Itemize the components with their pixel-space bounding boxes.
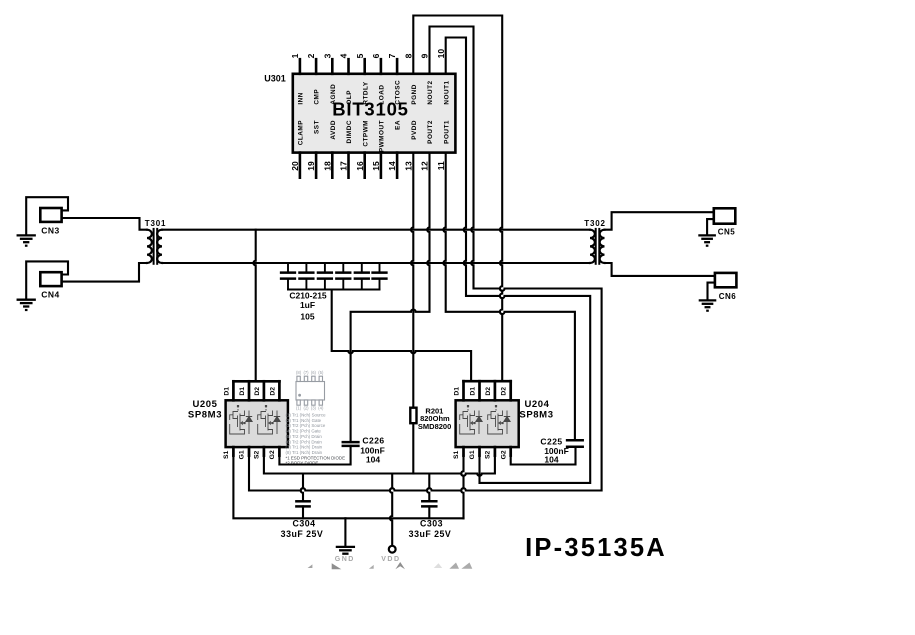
svg-text:PWMOUT: PWMOUT xyxy=(379,120,386,152)
transformer T301 xyxy=(147,229,162,264)
transformer T302 xyxy=(590,229,605,264)
wire pin 9 NOUT2 loop to U205 G1 xyxy=(249,27,602,491)
svg-text:D2: D2 xyxy=(501,387,508,396)
U204 source/gate pin stubs xyxy=(464,447,511,456)
svg-text:33uF 25V: 33uF 25V xyxy=(281,529,324,539)
svg-text:9: 9 xyxy=(420,53,430,58)
ground at CN6 xyxy=(700,300,715,311)
capacitor C226 xyxy=(343,442,359,446)
pin 3 (AGND) of U301 xyxy=(322,53,337,104)
label 33uF 25V (C304) xyxy=(281,529,324,539)
pin G1 bottom of U204 xyxy=(469,450,476,459)
label U204 xyxy=(524,399,549,410)
svg-text:10: 10 xyxy=(436,49,446,59)
svg-text:6: 6 xyxy=(371,53,381,58)
connector CN4 xyxy=(40,272,61,286)
svg-text:S1: S1 xyxy=(223,450,230,459)
svg-text:1: 1 xyxy=(290,53,300,58)
label C303 xyxy=(420,519,443,529)
svg-text:NOUT2: NOUT2 xyxy=(427,80,434,104)
wire U204 S1 down to GND rail xyxy=(461,456,463,519)
svg-text:D2: D2 xyxy=(485,387,492,396)
wire C210 rail to U204 D1 xyxy=(332,290,471,382)
svg-text:SP8M3: SP8M3 xyxy=(519,410,553,421)
IC U301 body xyxy=(293,74,456,153)
svg-text:U205: U205 xyxy=(192,399,217,410)
label R201 xyxy=(425,406,443,415)
label 820Ohm xyxy=(420,414,450,423)
svg-text:*1 ESD PROTECTION DIODE: *1 ESD PROTECTION DIODE xyxy=(286,455,346,460)
wire CN4 ground hook xyxy=(26,261,68,298)
svg-text:3: 3 xyxy=(322,53,332,58)
ground at CN4 xyxy=(18,300,35,311)
label CN4 xyxy=(41,290,60,300)
svg-text:(4) Tr2 (Pch) Gate: (4) Tr2 (Pch) Gate xyxy=(286,429,322,434)
pin G2 bottom of U204 xyxy=(500,450,507,459)
wire pin 13 PVDD to R201 xyxy=(411,153,413,408)
label 104 (C226) xyxy=(366,455,380,465)
svg-text:PVDD: PVDD xyxy=(411,120,418,140)
wire R201 to VDD rail xyxy=(412,423,414,473)
svg-text:(1): (1) xyxy=(296,406,302,411)
U204 drain pin stubs xyxy=(464,381,511,400)
svg-text:INN: INN xyxy=(298,92,305,105)
label CN5 xyxy=(718,228,736,237)
pin G1 bottom of U205 xyxy=(239,450,246,459)
svg-text:104: 104 xyxy=(544,455,558,465)
svg-text:8: 8 xyxy=(403,53,413,58)
svg-text:17: 17 xyxy=(339,161,349,171)
label 1uF xyxy=(300,300,315,310)
svg-text:SST: SST xyxy=(314,120,321,134)
svg-text:(4): (4) xyxy=(318,406,324,411)
U205 internal transistor Tr2 xyxy=(258,405,281,434)
wire T302 to CN6 xyxy=(605,263,715,276)
svg-text:D1: D1 xyxy=(453,387,460,396)
pin D2 top of U205 xyxy=(254,387,261,396)
label GND xyxy=(335,556,355,563)
pin D1 top of U204 xyxy=(453,387,460,396)
ground at CN5 xyxy=(699,235,714,246)
label U205 xyxy=(192,399,217,410)
svg-text:(6): (6) xyxy=(311,370,317,375)
wire U205 G2 to C226 xyxy=(279,446,350,465)
label CN3 xyxy=(41,226,60,236)
U204 internal transistor Tr2 xyxy=(488,405,511,434)
svg-text:PGND: PGND xyxy=(411,84,418,104)
svg-text:RTDLY: RTDLY xyxy=(362,81,369,104)
pin 15 (PWMOUT) of U301 xyxy=(371,120,386,178)
svg-text:VDD: VDD xyxy=(381,556,400,563)
label SP8M3 (U205) xyxy=(188,410,222,421)
label 104 (C225) xyxy=(544,455,558,465)
label CN6 xyxy=(719,292,737,301)
pin S1 bottom of U205 xyxy=(223,450,230,459)
svg-text:15: 15 xyxy=(371,161,381,171)
wire GND stub xyxy=(344,518,346,546)
svg-text:OLP: OLP xyxy=(346,90,353,105)
wire CN3 ground hook xyxy=(26,197,68,233)
pin 20 (CLAMP) of U301 xyxy=(290,120,305,178)
svg-text:(2): (2) xyxy=(303,406,309,411)
svg-text:(3) Tr2 (Pch) Source: (3) Tr2 (Pch) Source xyxy=(286,423,326,428)
svg-text:POUT2: POUT2 xyxy=(427,120,434,144)
svg-text:C303: C303 xyxy=(420,519,443,529)
svg-text:G1: G1 xyxy=(239,450,246,459)
svg-text:20: 20 xyxy=(290,161,300,171)
svg-text:CN3: CN3 xyxy=(41,226,60,236)
svg-text:CTPWM: CTPWM xyxy=(362,120,369,147)
svg-text:U301: U301 xyxy=(264,74,286,84)
label C304 xyxy=(292,519,315,529)
svg-text:LOAD: LOAD xyxy=(379,84,386,104)
svg-text:(5) Tr2 (Pch) Drain: (5) Tr2 (Pch) Drain xyxy=(286,434,323,439)
svg-text:IP-35135A: IP-35135A xyxy=(525,534,667,562)
pin 16 (CTPWM) of U301 xyxy=(355,120,370,178)
svg-text:11: 11 xyxy=(436,161,446,170)
svg-text:5: 5 xyxy=(355,53,365,58)
svg-text:12: 12 xyxy=(420,161,430,171)
pin D2 top of U204 xyxy=(501,387,508,396)
pin 8 (PGND) of U301 xyxy=(403,53,418,104)
pin 2 (CMP) of U301 xyxy=(306,53,321,104)
transistor U204 body xyxy=(456,400,519,447)
pin D2 top of U204 xyxy=(485,387,492,396)
wire VDD line to C303 xyxy=(427,474,429,502)
pin 13 (PVDD) of U301 xyxy=(403,120,418,171)
svg-text:104: 104 xyxy=(366,455,380,465)
label 100nF (C225) xyxy=(544,446,569,456)
capacitor C303 xyxy=(422,501,436,506)
svg-text:D2: D2 xyxy=(269,387,276,396)
svg-text:S1: S1 xyxy=(453,450,460,459)
svg-text:D1: D1 xyxy=(239,387,246,396)
svg-text:NOUT1: NOUT1 xyxy=(443,80,450,104)
label IP-35135A xyxy=(525,534,667,562)
svg-text:14: 14 xyxy=(387,161,397,171)
wire pin 10 NOUT1 loop to U204 G1 xyxy=(446,38,591,483)
ground at CN3 xyxy=(18,235,35,246)
pin 17 (DIMDC) of U301 xyxy=(339,120,354,178)
svg-text:D2: D2 xyxy=(254,387,261,396)
wire VDD line to C304 xyxy=(301,474,303,502)
pin 11 (POUT1) of U301 xyxy=(436,120,451,170)
svg-text:T301: T301 xyxy=(145,219,166,228)
svg-text:D1: D1 xyxy=(223,387,230,396)
pin G2 bottom of U205 xyxy=(269,450,276,459)
svg-text:2: 2 xyxy=(306,53,316,58)
U204 internal transistor Tr1 xyxy=(460,405,483,434)
U205 drain pin stubs xyxy=(233,381,279,400)
wire pin 11 POUT1 to C225 xyxy=(443,153,575,441)
transistor U205 body xyxy=(226,400,288,447)
label C225 xyxy=(540,437,562,447)
node VDD terminal xyxy=(389,546,396,553)
svg-text:16: 16 xyxy=(355,161,365,171)
svg-text:G2: G2 xyxy=(500,450,507,459)
U205 source/gate pin stubs xyxy=(233,447,279,456)
label SP8M3 (U204) xyxy=(519,410,553,421)
label T301 xyxy=(145,219,166,228)
pin D1 top of U205 xyxy=(239,387,246,396)
label C226 xyxy=(362,435,384,445)
svg-text:U204: U204 xyxy=(524,399,549,410)
pin 4 (OLP) of U301 xyxy=(339,53,354,104)
pin 14 (EA) of U301 xyxy=(387,120,402,178)
pin 9 (NOUT2) of U301 xyxy=(420,53,435,104)
svg-text:7: 7 xyxy=(387,53,397,58)
SOP-8 package drawing (gray) xyxy=(296,370,325,411)
capacitor C225 xyxy=(567,440,583,447)
svg-text:(7): (7) xyxy=(303,370,309,375)
svg-text:CN5: CN5 xyxy=(718,228,736,237)
wire U204 G2 to C225 xyxy=(511,447,576,465)
svg-text:(1) Tr1 (Nch) Source: (1) Tr1 (Nch) Source xyxy=(286,413,327,418)
label C210-215 xyxy=(289,291,327,301)
label VDD xyxy=(381,556,400,563)
svg-text:CLAMP: CLAMP xyxy=(298,120,305,145)
pin S2 bottom of U205 xyxy=(254,450,261,459)
pin 6 (LOAD) of U301 xyxy=(371,53,386,104)
wire T302 to CN5 xyxy=(605,212,714,230)
pin D1 top of U204 xyxy=(469,387,476,396)
resistor R201 xyxy=(410,408,416,424)
label 100nF (C226) xyxy=(360,445,385,455)
svg-text:13: 13 xyxy=(403,161,413,171)
label BIT3105 xyxy=(332,98,409,119)
svg-text:105: 105 xyxy=(300,312,314,322)
svg-text:GND: GND xyxy=(335,556,355,563)
wire C304 to GND rail xyxy=(302,506,304,518)
svg-text:CMP: CMP xyxy=(314,89,321,105)
label U301 xyxy=(264,74,286,84)
svg-text:(8): (8) xyxy=(296,370,302,375)
pin S2 bottom of U204 xyxy=(485,450,492,459)
pin S1 bottom of U204 xyxy=(453,450,460,459)
svg-text:1uF: 1uF xyxy=(300,300,315,310)
svg-text:(7) Tr1 (Nch) Drain: (7) Tr1 (Nch) Drain xyxy=(286,445,323,450)
wire primary bottom bus xyxy=(162,262,590,264)
svg-text:AVDD: AVDD xyxy=(330,120,337,140)
svg-text:G1: G1 xyxy=(469,450,476,459)
pin 1 (INN) of U301 xyxy=(290,53,305,104)
wire VDD stub xyxy=(390,474,392,546)
svg-text:4: 4 xyxy=(339,53,349,58)
svg-text:DIMDC: DIMDC xyxy=(346,120,353,143)
wire CN5 ground hook xyxy=(707,219,714,234)
connector CN6 xyxy=(715,273,737,287)
svg-text:CN4: CN4 xyxy=(41,290,60,300)
svg-text:(5): (5) xyxy=(318,370,324,375)
wire primary top bus xyxy=(162,229,590,231)
ground GND terminal xyxy=(337,547,354,554)
svg-text:S2: S2 xyxy=(254,450,261,459)
svg-text:CN6: CN6 xyxy=(719,292,737,301)
wire CN6 ground hook xyxy=(708,283,715,299)
pin 19 (SST) of U301 xyxy=(306,120,321,178)
svg-text:(8) Tr1 (Nch) Drain: (8) Tr1 (Nch) Drain xyxy=(286,450,323,455)
pin D2 top of U205 xyxy=(269,387,276,396)
svg-text:(2) Tr1 (Nch) Gate: (2) Tr1 (Nch) Gate xyxy=(286,418,322,423)
svg-text:D1: D1 xyxy=(469,387,476,396)
svg-text:(3): (3) xyxy=(311,406,317,411)
SOP-8 pin note text (gray) xyxy=(286,413,346,466)
svg-text:AGND: AGND xyxy=(330,84,337,105)
svg-text:G2: G2 xyxy=(269,450,276,459)
wire CN4 to T301 xyxy=(62,263,147,282)
watermark (decorative) xyxy=(308,562,473,569)
pin 18 (AVDD) of U301 xyxy=(322,120,337,178)
pin 10 (NOUT1) of U301 xyxy=(436,49,451,105)
svg-text:SMD8200: SMD8200 xyxy=(418,422,451,431)
label SMD8200 xyxy=(418,422,451,431)
svg-text:SP8M3: SP8M3 xyxy=(188,410,222,421)
svg-text:33uF 25V: 33uF 25V xyxy=(409,529,452,539)
svg-text:EA: EA xyxy=(395,120,402,130)
connector CN5 xyxy=(714,208,736,223)
svg-text:18: 18 xyxy=(322,161,332,171)
pin D1 top of U205 xyxy=(223,387,230,396)
pin 12 (POUT2) of U301 xyxy=(420,120,435,171)
connector CN3 xyxy=(40,208,61,222)
wire VDD line (U205 S2 to U204 S2) xyxy=(264,456,495,476)
svg-text:(6) Tr2 (Pch) Drain: (6) Tr2 (Pch) Drain xyxy=(286,439,323,444)
wire GND rail (U205 S1 to U204 S1) xyxy=(233,456,463,519)
svg-text:T302: T302 xyxy=(584,219,605,228)
svg-text:POUT1: POUT1 xyxy=(443,120,450,144)
label 33uF 25V (C303) xyxy=(409,529,452,539)
wire top bus to U205 drains xyxy=(253,230,255,382)
capacitor bank C210-215 xyxy=(281,263,386,290)
label 105 xyxy=(300,312,314,322)
capacitor C304 xyxy=(296,501,309,506)
svg-text:C226: C226 xyxy=(362,435,384,445)
pin 5 (RTDLY) of U301 xyxy=(355,53,370,104)
wire C303 to GND rail xyxy=(428,506,430,518)
svg-text:C304: C304 xyxy=(292,519,315,529)
svg-text:S2: S2 xyxy=(485,450,492,459)
svg-text:CTOSC: CTOSC xyxy=(395,80,402,105)
U205 internal transistor Tr1 xyxy=(230,405,253,434)
pin 7 (CTOSC) of U301 xyxy=(387,53,402,104)
label T302 xyxy=(584,219,605,228)
wire pin 8 PGND loop to U204 D2 xyxy=(413,16,502,382)
wire CN3 to T301 xyxy=(62,218,147,230)
wire pin 12 POUT2 to C226 xyxy=(351,153,430,443)
svg-text:19: 19 xyxy=(306,161,316,171)
